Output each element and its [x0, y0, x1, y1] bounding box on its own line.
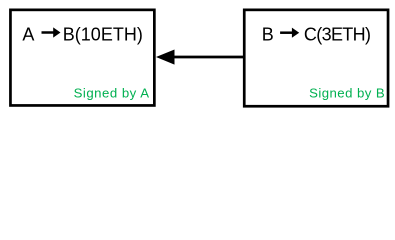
arrow glyph (A to B)	[42, 27, 61, 37]
box: transaction A to B	[10, 10, 154, 106]
arrow glyph (B to C)	[280, 28, 299, 38]
arrow: from box B-C to box A-B	[156, 50, 244, 65]
box: transaction B to C	[244, 10, 388, 106]
svg-text:B(10ETH): B(10ETH)	[63, 24, 143, 44]
svg-text:Signed by A: Signed by A	[74, 85, 150, 100]
svg-text:B: B	[262, 25, 274, 45]
svg-text:Signed by B: Signed by B	[309, 85, 385, 100]
svg-text:C(3ETH): C(3ETH)	[304, 25, 370, 45]
svg-text:A: A	[22, 24, 34, 44]
